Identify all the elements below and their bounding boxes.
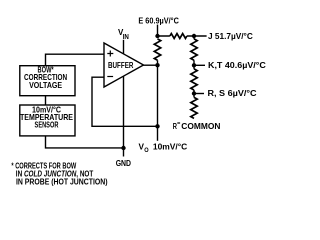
resistor top horizontal E-J bbox=[170, 34, 187, 39]
wire K,T tap bbox=[194, 64, 205, 66]
node J junction bbox=[192, 34, 196, 38]
resistor R,S to R- COMMON bbox=[191, 97, 197, 118]
box BOW correction voltage bbox=[20, 66, 75, 96]
svg-text:K,T 40.6µV/°C: K,T 40.6µV/°C bbox=[208, 61, 266, 70]
node K,T junction bbox=[192, 63, 196, 67]
wire V_IN stub bbox=[123, 40, 125, 54]
wire box link BOW to sensor bbox=[45, 96, 47, 105]
wire E line lower bbox=[157, 65, 159, 126]
svg-text:10mV/°C: 10mV/°C bbox=[153, 143, 187, 152]
wire top row to J bbox=[158, 35, 207, 37]
svg-text:GND: GND bbox=[116, 158, 131, 168]
svg-text:IN: IN bbox=[123, 34, 129, 41]
box 10mV/C temperature sensor bbox=[20, 105, 75, 136]
svg-text:O: O bbox=[144, 147, 148, 154]
plus input sign bbox=[107, 51, 113, 57]
wire buffer ground pin to GND stub bbox=[123, 76, 125, 157]
node V_O junction bbox=[155, 124, 159, 128]
node E top junction bbox=[155, 34, 159, 38]
svg-text:VOLTAGE: VOLTAGE bbox=[29, 81, 62, 90]
wire right chain leads bbox=[193, 36, 195, 97]
resistor K,T to R,S bbox=[191, 69, 197, 90]
svg-text:COMMON: COMMON bbox=[181, 122, 220, 131]
node output junction bbox=[155, 63, 159, 67]
wire feedback - input to output node bbox=[92, 77, 158, 126]
svg-text:E 60.9µV/°C: E 60.9µV/°C bbox=[138, 16, 179, 25]
wire + input from BOW box top bbox=[46, 54, 105, 65]
svg-text:SENSOR: SENSOR bbox=[35, 121, 59, 130]
svg-text:R, S 6µV/°C: R, S 6µV/°C bbox=[208, 89, 257, 98]
wire V_O stub bbox=[157, 126, 159, 141]
node GND junction bbox=[121, 146, 125, 150]
wire R,S tap bbox=[194, 93, 204, 95]
wire E resistor leads bbox=[157, 60, 159, 65]
svg-text:BUFFER: BUFFER bbox=[108, 60, 134, 70]
svg-text:J 51.7µV/°C: J 51.7µV/°C bbox=[208, 32, 253, 41]
wire buffer output bbox=[144, 64, 158, 66]
minus input sign bbox=[107, 76, 113, 78]
op-amp buffer U1 bbox=[104, 43, 144, 87]
wire E terminal stub bbox=[157, 25, 159, 36]
svg-text:R: R bbox=[173, 122, 177, 131]
wire sensor bottom to GND node bbox=[46, 136, 124, 148]
resistor E (60.9uV/C) vertical left bbox=[154, 39, 160, 60]
node R,S junction bbox=[192, 91, 196, 95]
resistor J to K,T bbox=[191, 39, 197, 60]
svg-text:IN PROBE (HOT JUNCTION): IN PROBE (HOT JUNCTION) bbox=[16, 178, 108, 187]
